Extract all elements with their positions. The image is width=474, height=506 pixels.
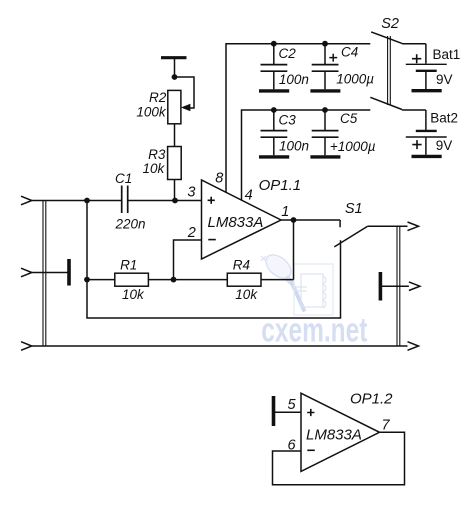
switch S1 blade (334, 226, 367, 247)
wire (87, 201, 341, 319)
C4 plus (329, 54, 337, 62)
wire (common bottom) (32, 345, 408, 347)
output arrow 3 (408, 342, 419, 351)
output arrow 1 (408, 222, 419, 231)
svg-text:100n: 100n (279, 139, 309, 154)
resistor R4 (227, 273, 261, 286)
node J (C5 top) (322, 107, 328, 113)
output arrow 2 (409, 282, 420, 291)
wire (output pin 1) (281, 220, 340, 227)
node C (input top) (84, 198, 90, 204)
node F (output pin1) (291, 217, 297, 223)
svg-text:8: 8 (215, 171, 223, 187)
svg-text:10k: 10k (143, 161, 166, 176)
svg-text:+1000µ: +1000µ (330, 139, 376, 154)
op-amp U1 OP1.1 (202, 180, 282, 259)
svg-text:1: 1 (281, 204, 289, 220)
wire (148, 279, 227, 281)
switch S2 pole 1 (371, 32, 426, 64)
svg-text:4: 4 (245, 187, 253, 203)
svg-text:100n: 100n (279, 72, 309, 87)
resistor R2 (potentiometer body) (168, 90, 181, 123)
svg-text:9V: 9V (436, 72, 453, 87)
capacitor C4 (310, 44, 340, 91)
svg-text:5: 5 (288, 397, 297, 413)
node I (C3 top) (271, 107, 277, 113)
wire (261, 220, 294, 280)
node B (pin3 / C1 / R3) (172, 198, 178, 204)
capacitor C1 (122, 186, 128, 214)
node D (input / R1) (84, 277, 90, 283)
contact bar (output middle) (379, 272, 383, 301)
switch S2 pole 2 (370, 97, 426, 130)
svg-text:LM833A: LM833A (208, 214, 264, 231)
svg-text:1000µ: 1000µ (336, 72, 374, 87)
svg-text:Bat2: Bat2 (430, 110, 458, 125)
wire (output middle) (382, 285, 409, 287)
svg-text:C2: C2 (279, 46, 297, 61)
svg-text:100k: 100k (136, 105, 167, 120)
svg-text:OP1.1: OP1.1 (259, 177, 302, 194)
svg-text:Bat1: Bat1 (433, 47, 461, 62)
wire (32, 272, 68, 274)
wire (R2 wiper link) (175, 77, 195, 108)
wire (pin 2) (174, 240, 202, 280)
wire (S1 to output) (367, 225, 407, 227)
svg-text:R4: R4 (233, 257, 250, 272)
svg-text:220n: 220n (115, 216, 146, 231)
svg-text:LM833A: LM833A (306, 426, 362, 443)
node G (C2 top) (271, 41, 277, 47)
connector double line (input) (43, 201, 46, 347)
connector double line (output) (397, 226, 400, 346)
op-amp plus (208, 197, 215, 204)
svg-text:C4: C4 (341, 45, 358, 60)
capacitor C2 (259, 44, 289, 91)
input arrow 1 (21, 196, 32, 205)
wire (pin 5) (275, 411, 301, 413)
resistor R3 (168, 147, 182, 180)
svg-text:R1: R1 (120, 257, 137, 272)
svg-text:S1: S1 (345, 201, 363, 217)
svg-text:S2: S2 (381, 16, 399, 32)
wire (pin 6 feedback loop) (273, 432, 405, 485)
svg-text:3: 3 (187, 185, 195, 201)
svg-text:C5: C5 (340, 111, 358, 126)
node E (R1/R4/pin2) (171, 277, 177, 283)
svg-text:C1: C1 (115, 171, 132, 186)
resistor R1 (115, 273, 149, 286)
watermark logo (261, 250, 333, 315)
capacitor C5 (310, 110, 340, 157)
wire (174, 180, 176, 201)
svg-text:R2: R2 (149, 90, 167, 105)
svg-text:7: 7 (381, 417, 390, 433)
svg-text:2: 2 (187, 225, 196, 241)
wire (32, 200, 121, 202)
wire (87, 279, 115, 281)
op-amp 2 minus (307, 449, 315, 451)
svg-text:10k: 10k (235, 287, 258, 302)
svg-text:C3: C3 (279, 112, 297, 127)
svg-text:10k: 10k (122, 287, 145, 302)
battery Bat2 (406, 131, 447, 157)
contact bar (OP1.2 pin 5) (272, 396, 276, 426)
ground bar (top of R2) (161, 56, 187, 59)
svg-text:OP1.2: OP1.2 (350, 390, 393, 407)
input arrow 2 (21, 268, 32, 277)
battery Bat1 (406, 54, 447, 90)
capacitor C3 (259, 110, 289, 157)
wire (128, 200, 201, 202)
svg-text:6: 6 (288, 437, 297, 453)
switch S2 link (388, 36, 391, 105)
wire (pin 4 / V- rail) (242, 110, 371, 200)
R2 wiper arrowhead (182, 104, 190, 110)
input arrow 3 (21, 342, 32, 351)
node H (C4 top) (322, 41, 328, 47)
op-amp 2 plus (307, 409, 314, 416)
wire (pin 8 / V+ rail) (226, 44, 370, 193)
op-amp U2 OP1.2 (301, 393, 380, 471)
op-amp minus (208, 239, 216, 241)
wire (174, 59, 176, 77)
svg-text:9V: 9V (436, 138, 453, 153)
wire (174, 124, 176, 147)
contact bar (input middle) (67, 259, 71, 286)
node A (R2 wiper tie) (172, 74, 178, 80)
